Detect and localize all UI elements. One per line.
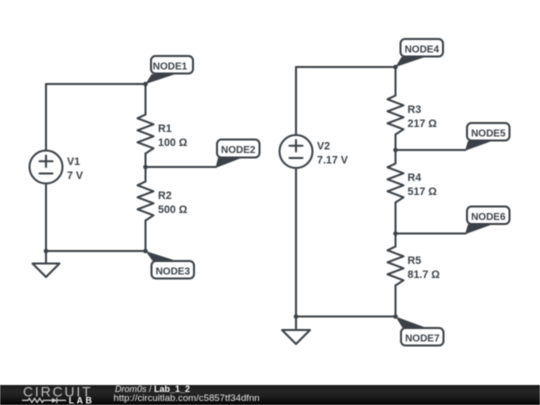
wire R3 bottom to node5 xyxy=(395,135,397,151)
wire R2 bottom to bottom rail xyxy=(145,221,147,252)
junction ground right dot xyxy=(294,314,299,319)
wire R4 bottom to node6 xyxy=(395,203,397,234)
node NODE7 flag tail xyxy=(396,317,427,328)
svg-text:NODE2: NODE2 xyxy=(221,145,256,156)
node NODE2 flag box xyxy=(217,140,260,158)
wire node4 to R3 top xyxy=(395,67,397,96)
svg-text:NODE3: NODE3 xyxy=(156,267,191,278)
node NODE7 flag box xyxy=(401,328,444,346)
wire node2 lead xyxy=(146,166,217,168)
svg-text:81.7 Ω: 81.7 Ω xyxy=(408,269,441,281)
wire node1 to R1 top xyxy=(145,84,147,115)
wire node6 to R5 top xyxy=(395,234,397,247)
svg-text:500 Ω: 500 Ω xyxy=(158,204,188,216)
node NODE6 flag tail xyxy=(465,225,492,235)
resistor R3 zigzag xyxy=(388,96,404,135)
svg-text:R5: R5 xyxy=(408,255,422,267)
wire R1 bottom to node2 junction xyxy=(145,154,147,168)
wire left vertical to V1 top xyxy=(45,84,47,151)
V1 minus sign xyxy=(40,173,53,175)
junction node1 dot xyxy=(143,82,148,87)
node NODE2 flag tail xyxy=(216,158,243,168)
wire top left xyxy=(46,83,146,85)
svg-text:R4: R4 xyxy=(408,172,422,184)
svg-text:217 Ω: 217 Ω xyxy=(408,118,438,130)
node NODE3 flag tail xyxy=(146,251,177,261)
svg-text:NODE5: NODE5 xyxy=(471,129,506,140)
node NODE3 flag box xyxy=(152,261,195,279)
wire V1 bottom to bottom rail xyxy=(45,184,47,252)
wire node2 junction to R2 top xyxy=(145,167,147,182)
logo diode bar and wire xyxy=(57,398,66,404)
node NODE5 flag box xyxy=(467,123,510,141)
svg-text:517 Ω: 517 Ω xyxy=(408,186,438,198)
node NODE1 flag tail xyxy=(146,74,176,84)
resistor R2 zigzag xyxy=(138,182,154,221)
voltage source V1 circle xyxy=(30,151,63,184)
node NODE5 flag tail xyxy=(465,141,492,151)
resistor R4 zigzag xyxy=(388,164,404,203)
V2 plus sign xyxy=(290,140,303,152)
wire bottom rail right circuit xyxy=(296,316,396,318)
wire R5 bottom to bottom rail xyxy=(395,286,397,317)
svg-text:V2: V2 xyxy=(317,141,330,153)
wire node5 to R4 top xyxy=(395,150,397,164)
ground left triangle xyxy=(33,264,60,278)
svg-text:NODE4: NODE4 xyxy=(405,45,440,56)
node NODE6 flag box xyxy=(467,207,510,225)
wire V2 bottom long xyxy=(295,168,297,317)
node NODE4 flag tail xyxy=(396,57,426,67)
wire node6 lead xyxy=(396,233,466,235)
svg-text:7 V: 7 V xyxy=(67,170,84,182)
junction node7 dot xyxy=(393,314,398,319)
junction ground left dot xyxy=(44,249,49,254)
ground right triangle xyxy=(282,330,310,344)
wire V2 top xyxy=(295,67,297,135)
svg-text:R1: R1 xyxy=(158,123,172,135)
V2 minus sign xyxy=(290,157,303,159)
junction node3 dot xyxy=(143,249,148,254)
junction node4 dot xyxy=(393,65,398,70)
svg-text:NODE7: NODE7 xyxy=(405,334,440,345)
logo squiggle wire and resistor xyxy=(22,398,52,402)
wire node5 lead xyxy=(396,149,466,151)
logo diode xyxy=(52,398,57,403)
svg-text:V1: V1 xyxy=(67,156,80,168)
svg-text:7.17 V: 7.17 V xyxy=(317,155,349,167)
footer bar xyxy=(0,385,540,405)
V1 plus sign xyxy=(40,156,53,168)
ground right stem xyxy=(295,317,297,331)
svg-text:NODE6: NODE6 xyxy=(471,212,506,223)
svg-text:R3: R3 xyxy=(408,104,422,116)
junction node6 dot xyxy=(393,231,398,236)
ground left stem xyxy=(45,251,47,264)
resistor R1 zigzag xyxy=(138,115,154,154)
node NODE4 flag box xyxy=(401,39,444,57)
node NODE1 flag box xyxy=(151,56,193,74)
svg-text:R2: R2 xyxy=(158,190,172,202)
junction node2 dot xyxy=(143,165,148,170)
svg-text:http://circuitlab.com/c5857tf3: http://circuitlab.com/c5857tf34dfnn xyxy=(114,393,260,404)
voltage source V2 circle xyxy=(280,135,313,168)
svg-text:100 Ω: 100 Ω xyxy=(158,137,188,149)
wire bottom rail left circuit xyxy=(46,250,146,252)
wire top right rail xyxy=(296,66,396,68)
svg-text:NODE1: NODE1 xyxy=(153,62,188,73)
resistor R5 zigzag xyxy=(388,247,404,286)
svg-text:LAB: LAB xyxy=(69,395,95,405)
junction node5 dot xyxy=(393,148,398,153)
